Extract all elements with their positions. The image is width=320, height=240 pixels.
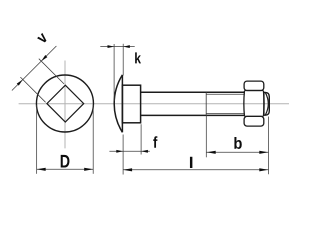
label k <box>135 52 141 63</box>
horizontal centerline (bolt axis) <box>19 103 289 105</box>
bolt end (protruding thread tip) <box>264 92 269 115</box>
f arrow left (outside) <box>116 150 123 153</box>
head bearing face line <box>121 75 123 132</box>
label f <box>153 136 157 148</box>
b arrow left <box>207 151 216 154</box>
square neck (front view diamond) <box>47 85 84 122</box>
f arrow right (outside) <box>141 150 148 153</box>
nut upper face line <box>244 90 263 92</box>
bolt end chamfer arc <box>265 93 268 115</box>
nut bottom chamfer band <box>244 116 264 126</box>
vertical centerline (front view) <box>64 61 66 149</box>
thread minor diameter top <box>206 93 244 95</box>
D extension line right <box>92 105 94 174</box>
v dimension line <box>12 46 57 91</box>
nut middle face left arc <box>243 91 246 116</box>
l arrow right <box>259 168 268 171</box>
label l <box>190 157 192 168</box>
v arrow lower (outside) <box>17 80 23 86</box>
head circle (front view) <box>36 75 93 132</box>
thread start line <box>205 92 207 115</box>
shank top line <box>141 91 244 93</box>
square neck (side view) <box>122 85 140 123</box>
nut middle face right arc <box>262 91 265 116</box>
k arrow right (outside) <box>123 45 130 48</box>
b extension line left (thread start) <box>205 116 207 158</box>
b dimension line <box>206 151 268 153</box>
thread minor diameter bottom <box>206 112 244 114</box>
f/l extension line (bearing face, below head) <box>122 135 124 175</box>
v arrow upper (outside) <box>41 55 47 61</box>
f dimension line <box>109 150 149 152</box>
f extension line right (neck end) <box>140 124 142 154</box>
shank bottom line <box>141 114 244 116</box>
D arrow left <box>37 168 46 171</box>
l arrow left <box>123 168 132 171</box>
label b <box>234 137 241 149</box>
b arrow right <box>259 151 268 154</box>
label D <box>61 155 70 168</box>
k arrow left (outside) <box>108 45 115 48</box>
D arrow right <box>84 168 93 171</box>
label v <box>37 33 48 44</box>
v extension line from left vertex <box>20 77 45 102</box>
head dome (side view) <box>114 75 122 132</box>
b/l extension line right (bolt tip) <box>268 117 270 175</box>
D dimension line <box>37 168 94 170</box>
k/f/l extension line (bearing face, above head) <box>122 44 124 76</box>
nut lower face line <box>244 115 263 117</box>
k dimension line <box>100 46 134 48</box>
D extension line left <box>36 105 38 174</box>
nut top chamfer band <box>244 81 264 90</box>
l dimension line <box>123 169 268 171</box>
v extension line from top vertex <box>39 59 64 84</box>
k extension line left (head top point) <box>113 44 115 101</box>
